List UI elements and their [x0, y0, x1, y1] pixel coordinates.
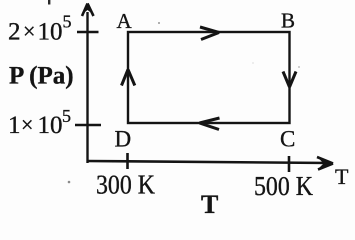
svg-text:C: C: [280, 127, 295, 152]
svg-text:D: D: [115, 127, 132, 152]
svg-text:1: 1: [8, 112, 21, 139]
svg-text:×: ×: [23, 19, 35, 44]
svg-text:A: A: [117, 9, 133, 33]
svg-text:×: ×: [21, 112, 33, 137]
svg-text:B: B: [281, 9, 295, 33]
svg-text:500 K: 500 K: [254, 171, 313, 201]
svg-text:5: 5: [62, 106, 71, 126]
svg-text:T: T: [335, 164, 349, 189]
svg-text:P (Pa): P (Pa): [9, 63, 74, 90]
svg-text:10: 10: [38, 19, 63, 46]
svg-text:2: 2: [8, 19, 21, 46]
svg-text:10: 10: [38, 112, 63, 139]
svg-text:T: T: [201, 190, 218, 217]
svg-text:300 K: 300 K: [96, 170, 155, 200]
svg-text:5: 5: [63, 12, 72, 32]
